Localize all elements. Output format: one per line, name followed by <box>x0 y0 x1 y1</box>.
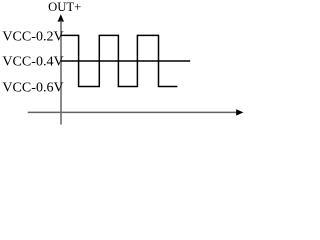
OUT+ square waveform <box>61 35 177 86</box>
x-axis <box>28 111 237 113</box>
svg-text:VCC-0.6V: VCC-0.6V <box>2 80 64 95</box>
x-axis arrowhead <box>236 109 243 115</box>
y-axis <box>60 21 62 125</box>
VCC-0.4V mid level line <box>61 60 190 62</box>
svg-text:OUT+: OUT+ <box>48 0 81 14</box>
y-axis arrowhead <box>58 14 64 21</box>
svg-text:VCC-0.4V: VCC-0.4V <box>2 54 64 69</box>
svg-text:VCC-0.2V: VCC-0.2V <box>2 28 64 43</box>
